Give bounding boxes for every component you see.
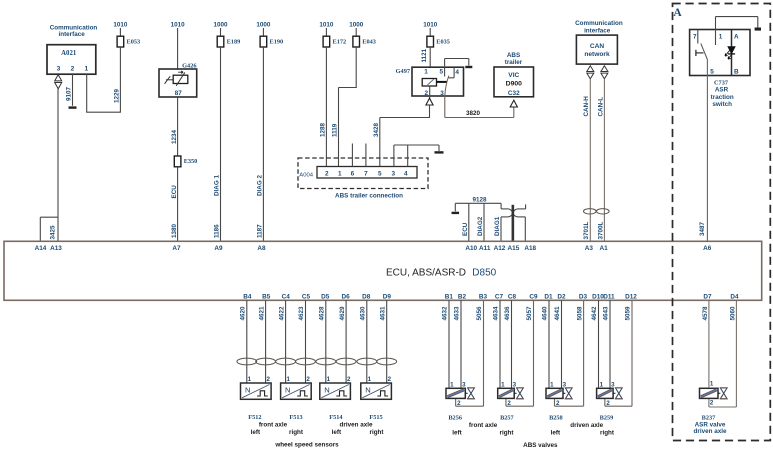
svg-text:A15: A15 [508,245,520,252]
svg-text:interface: interface [584,28,611,35]
label B237 [702,414,716,421]
svg-text:1119: 1119 [332,123,339,137]
wire 4578 to B237 pin 1 [702,300,709,387]
stub A004 pin 6 [351,144,353,167]
svg-text:4640: 4640 [542,306,549,321]
svg-text:5058: 5058 [576,306,583,321]
wire 4643 to B259 pin 3 [603,300,610,388]
svg-text:B257: B257 [500,414,514,421]
label B257 [500,414,514,421]
wire DIAG1 A12 [494,216,501,241]
wire 4630 to F515 pin 1 [360,300,367,383]
wheel speed sensor F515 [361,376,392,399]
svg-text:A6: A6 [703,245,712,252]
svg-text:2: 2 [606,400,610,407]
svg-text:5060: 5060 [730,306,737,321]
svg-text:1: 1 [327,376,331,383]
wire 4640 to B258 pin 1 [542,300,549,388]
svg-text:5: 5 [378,171,382,178]
svg-text:ABS valves: ABS valves [523,442,558,449]
svg-text:4: 4 [404,171,408,178]
svg-text:1: 1 [600,381,604,388]
label right (B259) [600,430,615,437]
wire 1121 [421,47,430,79]
svg-text:1186: 1186 [214,224,221,238]
connector A021 [47,45,96,74]
wire 1119 [332,47,357,167]
label left (B256) [452,430,462,437]
wire 1010 supply E035 [423,22,438,37]
svg-text:4632: 4632 [442,306,449,321]
wire C737 pin1 to terminal [716,17,762,31]
svg-text:3820: 3820 [466,110,481,117]
svg-text:ASR: ASR [715,87,729,94]
svg-text:2: 2 [556,400,560,407]
svg-text:A: A [673,7,682,19]
svg-text:4643: 4643 [603,306,610,321]
fuse E053 [117,36,140,47]
svg-text:6: 6 [351,171,355,178]
svg-text:3: 3 [57,66,61,73]
wire A18 [524,217,526,241]
svg-text:left: left [251,429,261,436]
svg-text:A021: A021 [61,50,77,57]
wire A021 pin1 to 1229 [86,74,121,112]
label ABS trailer connection [335,192,403,199]
label ASR valve [695,421,726,428]
label driven axle (valves) [570,422,603,429]
svg-text:A3: A3 [585,245,594,252]
svg-text:A7: A7 [172,245,181,252]
wire 1288 [320,47,327,167]
svg-text:right: right [289,429,304,436]
label driven axle (sensors) [340,422,373,429]
svg-text:F513: F513 [289,414,302,421]
svg-text:3425: 3425 [49,225,56,240]
svg-text:D7: D7 [703,293,712,300]
svg-text:A18: A18 [524,245,536,252]
svg-text:1380: 1380 [171,223,178,238]
wire 1000 supply E043 [349,22,364,37]
wire 5058 loop to B258 pin 2 [555,300,584,406]
svg-text:7: 7 [693,33,697,40]
wire 4623 to F513 pin 2 [298,300,305,383]
wire 4629 to F514 pin 2 [339,300,346,383]
relay G497 [396,59,464,97]
svg-text:4636: 4636 [504,306,511,321]
junction merge at A15 [501,203,526,217]
ABS valve B259 [597,381,623,407]
svg-text:1: 1 [84,66,88,73]
svg-text:right: right [500,430,515,437]
wire 4620 to F512 pin 1 [240,300,247,383]
svg-text:2: 2 [71,66,75,73]
svg-text:driven axle: driven axle [570,422,603,429]
label left (F514) [332,429,342,436]
wire 1186 DIAG 1 [214,47,221,241]
double arrow CAN-L [601,66,608,79]
ground jumper G497 pin5 [445,59,469,66]
wire 1000 supply E189 [213,22,228,37]
wire 4633 to B256 pin 3 [454,300,461,388]
svg-text:DIAG 2: DIAG 2 [257,175,264,196]
label driven axle (B237) [694,428,727,435]
label F515 [369,414,382,421]
svg-text:4631: 4631 [379,306,386,321]
label right (B257) [500,430,515,437]
wire 1187 DIAG 2 [257,47,264,241]
svg-text:1: 1 [286,376,290,383]
svg-text:5: 5 [440,68,444,75]
svg-text:ABS: ABS [507,52,520,59]
connector A004 dashed box [298,158,428,189]
svg-text:traction: traction [711,94,734,101]
wire DIAG2 A11 [477,203,484,241]
switch C737 [690,30,750,76]
wire 4631 to F515 pin 2 [379,300,386,383]
svg-text:Communication: Communication [575,20,623,27]
control unit VIC D900 [494,67,534,97]
svg-text:3: 3 [513,381,517,388]
svg-text:A1: A1 [600,245,609,252]
svg-text:2: 2 [710,399,714,406]
wire 5057 loop to B257 pin 2 [506,300,534,406]
wire 4628 to F514 pin 1 [319,300,326,383]
svg-text:ECU, ABS/ASR-D: ECU, ABS/ASR-D [386,267,466,278]
svg-text:2: 2 [507,400,511,407]
wheel speed sensor F513 [281,376,312,399]
svg-text:C8: C8 [508,293,517,300]
svg-text:C5: C5 [302,293,311,300]
svg-text:N: N [245,386,250,395]
svg-text:4634: 4634 [493,306,500,321]
wire 1234 [171,97,178,156]
svg-text:interface: interface [58,31,85,38]
svg-text:1000: 1000 [349,22,364,29]
svg-text:1: 1 [338,171,342,178]
wire 5056 loop to B256 pin 2 [456,300,484,406]
svg-text:CAN: CAN [590,43,605,50]
svg-text:D4: D4 [730,293,739,300]
label B258 [549,414,563,421]
LED in C737 [725,47,735,59]
svg-text:F514: F514 [329,414,343,421]
svg-text:D11: D11 [603,293,615,300]
wire 3425 A14 jog [40,217,58,241]
svg-text:C4: C4 [282,293,291,300]
wire 3820 [445,96,514,118]
svg-text:E350: E350 [184,158,198,165]
wire 9128 bus [455,196,501,211]
svg-text:A14: A14 [35,245,47,252]
twisted pair ovals sensors [237,358,397,365]
svg-text:4: 4 [455,69,459,76]
label B256 [448,414,462,421]
wire 5060 loop to B237 pin 2 [709,300,737,407]
svg-text:2: 2 [388,376,392,383]
svg-text:4620: 4620 [240,306,247,321]
double arrow at A021 pin 3 [55,75,62,89]
svg-text:4642: 4642 [591,306,598,321]
wire 4636 to B257 pin 3 [504,300,511,388]
svg-text:A: A [734,33,739,40]
fuse E190 [260,36,283,47]
svg-text:4623: 4623 [298,306,305,321]
svg-text:VIC: VIC [508,72,519,79]
label front axle (sensors) [259,422,288,429]
connector arrow D900 C32 [510,100,517,107]
wire A13 to communication interface [57,89,59,242]
svg-text:1: 1 [424,68,428,75]
double arrow CAN-H [587,66,594,79]
svg-text:N: N [285,386,290,395]
svg-text:3: 3 [611,381,615,388]
ground at wire 9107 [69,106,77,108]
svg-text:F515: F515 [369,414,382,421]
wire 3487 to A6 [699,60,707,242]
connector arrow G497 pin2 [426,98,433,105]
wire 4634 to B257 pin 1 [493,300,500,388]
connector CAN network [576,35,617,64]
ABS valve B257 [498,381,524,407]
ground at G497 [465,66,472,68]
svg-text:1: 1 [248,376,252,383]
wire 1010 supply E053 [113,22,128,37]
svg-text:9128: 9128 [472,196,487,203]
svg-text:87: 87 [175,90,183,97]
svg-text:1000: 1000 [213,22,228,29]
svg-text:3: 3 [440,90,444,97]
wire CAN-L 3700L [597,79,604,242]
svg-text:DIAG 1: DIAG 1 [214,175,221,196]
label Communication interface (right) [575,20,623,35]
svg-text:A12: A12 [494,245,506,252]
fuse E035 [427,36,450,47]
wire 4642 to B259 pin 1 [591,300,598,388]
svg-text:3: 3 [563,381,567,388]
svg-text:4628: 4628 [319,306,326,321]
wheel speed sensor F514 [320,376,351,399]
svg-text:1000: 1000 [256,22,271,29]
svg-text:B237: B237 [702,414,716,421]
svg-text:C737: C737 [714,79,728,86]
svg-text:4578: 4578 [702,306,709,321]
svg-text:3: 3 [392,171,396,178]
svg-text:D9: D9 [383,293,392,300]
wire G497 coil pin2 [429,86,431,98]
svg-text:CAN-L: CAN-L [597,97,604,117]
svg-text:left: left [551,430,561,437]
label F513 [289,414,302,421]
svg-text:right: right [600,430,615,437]
label front axle (valves) [469,422,498,429]
label right (F513) [289,429,304,436]
svg-text:4630: 4630 [360,306,367,321]
svg-text:D2: D2 [557,293,566,300]
svg-text:network: network [584,51,610,58]
svg-text:DIAG2: DIAG2 [477,216,484,236]
svg-text:CAN-H: CAN-H [583,96,590,117]
label ABS trailer [505,52,523,66]
svg-text:D3: D3 [579,293,588,300]
svg-text:2: 2 [266,376,270,383]
svg-text:1: 1 [450,381,454,388]
wire CAN-H 3701L [583,79,590,242]
wire 1010 supply G426 [171,22,186,69]
wire 4621 to F512 pin 2 [258,300,265,383]
wire A15 trunk [512,205,515,242]
ECU control unit box D850 [4,241,762,300]
svg-text:3: 3 [462,381,466,388]
fuse E043 [353,36,376,47]
svg-text:B3: B3 [479,293,488,300]
svg-text:1010: 1010 [423,22,438,29]
svg-text:A10: A10 [465,245,477,252]
svg-text:N: N [365,386,370,395]
svg-text:B2: B2 [458,293,467,300]
svg-text:4641: 4641 [554,306,561,321]
svg-text:B1: B1 [445,293,454,300]
fuse E189 [217,36,240,47]
svg-text:A004: A004 [299,172,313,178]
wire A004 pins 3,4 to ground [394,145,439,167]
svg-text:4629: 4629 [339,306,346,321]
svg-text:3700L: 3700L [597,221,604,239]
svg-text:1288: 1288 [320,122,327,137]
svg-text:4633: 4633 [454,306,461,321]
svg-text:E053: E053 [127,38,141,45]
svg-text:A9: A9 [214,245,223,252]
svg-text:1121: 1121 [421,48,428,62]
label wheel speed sensors [274,441,339,448]
svg-text:DIAG1: DIAG1 [494,216,501,236]
svg-text:2: 2 [425,90,429,97]
svg-text:D5: D5 [321,293,330,300]
svg-text:C32: C32 [508,90,520,97]
fuse E350 [174,156,197,167]
svg-text:1: 1 [550,381,554,388]
svg-text:1010: 1010 [171,22,186,29]
svg-text:5: 5 [710,69,714,76]
wire 4632 to B256 pin 1 [442,300,449,388]
svg-text:B256: B256 [448,414,462,421]
svg-text:D8: D8 [362,293,371,300]
wire 5059 loop to B259 pin 2 [605,300,632,406]
svg-text:D850: D850 [472,267,496,278]
svg-text:7: 7 [364,171,368,178]
label B259 [600,414,614,421]
stub A004 pin 7 [365,144,367,167]
svg-text:E043: E043 [362,38,376,45]
svg-text:front axle: front axle [259,422,288,429]
svg-text:switch: switch [712,101,732,108]
svg-text:ABS trailer connection: ABS trailer connection [335,192,403,199]
svg-text:B4: B4 [243,293,252,300]
svg-text:A13: A13 [50,245,62,252]
svg-text:1229: 1229 [114,88,121,103]
label right (F515) [370,429,385,436]
svg-text:N: N [324,386,329,395]
svg-text:D6: D6 [342,293,351,300]
ground at 9128 [452,212,460,214]
wire 9107 [66,74,73,106]
svg-text:3487: 3487 [699,221,706,236]
svg-text:1: 1 [368,376,372,383]
wire 1010 supply E172 [319,22,334,37]
svg-text:1: 1 [501,381,505,388]
svg-text:C7: C7 [495,293,504,300]
svg-text:D1: D1 [544,293,553,300]
ABS valve B258 [546,381,573,407]
wire 3428 [373,105,430,167]
ECU top pin labels [35,245,712,252]
ABS valve B256 [446,381,475,407]
svg-text:wheel speed sensors: wheel speed sensors [274,441,339,448]
label F512 [248,414,261,421]
wire 1380 ECU to A7 [171,167,178,242]
svg-text:G426: G426 [182,63,196,70]
svg-text:2: 2 [457,400,461,407]
svg-text:4621: 4621 [258,306,265,321]
svg-text:5059: 5059 [625,306,632,321]
label C737 ASR traction switch [711,79,734,108]
svg-text:right: right [370,429,385,436]
wire 1000 supply E190 [256,22,271,37]
svg-text:B258: B258 [549,414,563,421]
label ABS valves [523,442,558,449]
fuse E172 [323,36,346,47]
svg-text:E035: E035 [436,38,450,45]
svg-text:2: 2 [325,171,329,178]
svg-text:trailer: trailer [505,59,523,66]
svg-text:5057: 5057 [526,306,533,321]
svg-text:1: 1 [710,380,714,387]
svg-text:3428: 3428 [373,122,380,137]
svg-text:G497: G497 [396,68,410,75]
svg-text:E189: E189 [227,38,241,45]
wire 1229 [114,47,121,112]
svg-text:F512: F512 [248,414,261,421]
wheel speed sensor F512 [241,376,272,399]
svg-text:E172: E172 [333,38,347,45]
relay G426 [159,63,197,97]
svg-text:1010: 1010 [319,22,334,29]
svg-text:2: 2 [306,376,310,383]
svg-text:B5: B5 [262,293,271,300]
svg-text:1187: 1187 [257,224,264,238]
svg-text:D12: D12 [625,293,637,300]
svg-text:2: 2 [347,376,351,383]
svg-text:C9: C9 [529,293,538,300]
svg-text:A8: A8 [257,245,266,252]
svg-text:ECU: ECU [171,185,178,199]
twisted pair ovals CAN [584,209,610,214]
connector A004 pin row [317,167,417,179]
svg-text:B259: B259 [600,414,614,421]
label F514 [329,414,343,421]
svg-text:4622: 4622 [278,306,285,321]
svg-text:3701L: 3701L [583,221,590,239]
svg-text:1234: 1234 [171,129,178,144]
svg-text:5056: 5056 [476,306,483,321]
svg-text:A11: A11 [479,245,491,252]
wire 4641 to B258 pin 3 [554,300,561,388]
wire ECU A10 [462,203,469,241]
svg-text:left: left [332,429,342,436]
label left (F512) [251,429,261,436]
svg-text:1010: 1010 [113,22,128,29]
ECU bottom pin labels [243,293,739,300]
